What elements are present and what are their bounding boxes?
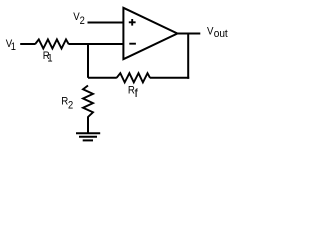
wire output branch vertical <box>187 34 189 79</box>
wire V1 to R1 <box>20 43 35 45</box>
wire feedback node to Rf <box>88 77 117 79</box>
svg-text:out: out <box>214 28 228 40</box>
svg-text:V: V <box>73 10 79 23</box>
wire op-amp output <box>176 33 200 35</box>
svg-text:f: f <box>135 86 139 100</box>
svg-text:1: 1 <box>11 42 16 54</box>
wire V2 to noninverting input <box>88 22 124 24</box>
wire Rf to output branch <box>150 77 189 79</box>
op-amp inverting input marker - <box>129 43 136 45</box>
label Rf <box>128 84 139 100</box>
node V2 <box>73 10 85 27</box>
svg-text:1: 1 <box>47 53 52 65</box>
label R1 <box>43 50 53 65</box>
svg-text:V: V <box>207 25 213 38</box>
op-amp U1 <box>123 8 177 59</box>
resistor R1 <box>35 39 68 48</box>
label R2 <box>61 95 73 112</box>
wire R2 to ground <box>87 117 89 134</box>
node Vout <box>207 25 228 40</box>
ground <box>76 133 100 140</box>
svg-text:2: 2 <box>68 100 73 112</box>
wire inverting node down to feedback node <box>87 44 89 78</box>
node V1 <box>6 38 17 54</box>
resistor R2 <box>83 86 93 117</box>
op-amp noninverting input marker + <box>129 19 136 26</box>
resistor Rf <box>117 73 150 82</box>
wire R1 to op-amp inverting input <box>68 43 123 45</box>
svg-text:2: 2 <box>80 15 85 27</box>
